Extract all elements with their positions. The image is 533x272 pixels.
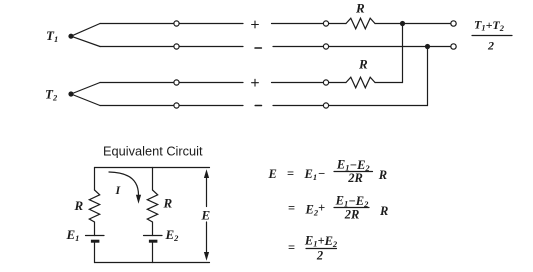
svg-text:Equivalent Circuit: Equivalent Circuit [103, 144, 203, 159]
svg-text:E2: E2 [165, 227, 180, 243]
wire row1 segment b [179, 23, 243, 25]
svg-text:=: = [288, 241, 295, 255]
current arrowhead [136, 195, 141, 204]
resistor R lower (zigzag) [346, 77, 375, 88]
svg-text:R: R [74, 198, 84, 213]
svg-text:T1: T1 [46, 28, 58, 44]
wire eq-circuit bottom [95, 262, 210, 264]
wire row2 segment d [329, 46, 451, 48]
wire row2 segment b [179, 46, 243, 48]
wire T1 upper lead [71, 24, 100, 37]
wire row3 segment a [100, 82, 174, 84]
wire row1 segment d [329, 23, 346, 25]
polarity - row2 [255, 47, 261, 49]
terminal circle row2 mid [323, 44, 328, 49]
terminal circle row2 left [174, 44, 179, 49]
output label fraction (T1+T2)/2 [472, 17, 512, 52]
wire T2 upper lead [71, 83, 100, 95]
wire row1 segment a [100, 23, 174, 25]
resistor R middle branch (zigzag) [147, 190, 157, 222]
svg-text:R: R [379, 204, 388, 218]
svg-text:R: R [378, 168, 387, 182]
svg-text:=: = [287, 167, 294, 181]
svg-text:E1: E1 [304, 167, 318, 182]
resistor R left branch (zigzag) [89, 190, 99, 222]
voltage arrow E upper segment [206, 176, 208, 207]
svg-text:T1+T2: T1+T2 [474, 17, 505, 33]
junction dot node B [425, 44, 430, 49]
node T1 junction dot [68, 34, 73, 39]
battery E2 positive plate [144, 235, 163, 237]
wire left branch lower [94, 243, 96, 263]
wire middle branch mid [152, 222, 154, 236]
wire left branch upper [94, 168, 96, 191]
wire row4 segment c [273, 105, 323, 107]
wire T2 lower lead [71, 94, 100, 106]
voltage arrowhead up [204, 169, 209, 178]
svg-text:2: 2 [487, 39, 494, 53]
wire row4 segment d [329, 105, 428, 107]
svg-text:I: I [115, 183, 122, 197]
svg-text:R: R [355, 1, 365, 16]
terminal circle row3 left [174, 80, 179, 85]
terminal circle row1 left [174, 21, 179, 26]
svg-text:R: R [358, 57, 368, 72]
wire T1 lower lead [71, 36, 100, 46]
terminal circle row1 mid [323, 21, 328, 26]
polarity + row1 [252, 21, 259, 28]
battery E2 negative plate [149, 240, 158, 243]
svg-text:E: E [201, 208, 211, 223]
wire row4 segment b [179, 105, 243, 107]
svg-text:+: + [318, 201, 325, 215]
wire row1 segment c [272, 23, 324, 25]
terminal circle row4 left [174, 103, 179, 108]
svg-text:2R: 2R [347, 171, 363, 185]
wire row3 segment e [375, 82, 403, 84]
svg-text:E2: E2 [305, 203, 319, 218]
svg-text:2R: 2R [344, 208, 360, 222]
equation line 1 [268, 158, 388, 185]
svg-text:−: − [318, 167, 326, 181]
polarity - row4 [255, 105, 261, 107]
wire row4 segment a [100, 105, 174, 107]
current arrow I (arc) [109, 172, 139, 195]
output terminal row1 [451, 21, 456, 26]
resistor R top (zigzag) [346, 18, 375, 29]
output terminal row2 [451, 44, 456, 49]
svg-text:=: = [288, 201, 295, 215]
polarity + row3 [252, 79, 259, 86]
battery E1 positive plate [86, 235, 105, 237]
wire eq-circuit top [95, 167, 210, 169]
svg-text:E1: E1 [66, 227, 80, 243]
wire vertical row3 to node A [402, 24, 404, 83]
battery E1 negative plate [91, 240, 100, 243]
equation line 2 [288, 194, 388, 222]
terminal circle row3 mid [323, 80, 328, 85]
voltage arrow E lower segment [206, 222, 208, 252]
wire row2 segment a [100, 46, 174, 48]
wire row2 segment c [273, 46, 323, 48]
svg-text:R: R [163, 196, 173, 211]
svg-text:T2: T2 [45, 87, 58, 103]
svg-text:E: E [268, 167, 277, 181]
wire vertical row4 to node B [427, 47, 429, 106]
wire row3 segment d [329, 82, 346, 84]
wire row3 segment c [272, 82, 324, 84]
equation line 3 [288, 234, 338, 263]
junction dot node A [400, 21, 405, 26]
wire middle branch upper [152, 168, 154, 191]
wire row1 segment e [375, 23, 451, 25]
svg-text:2: 2 [316, 249, 323, 263]
wire left branch middle [94, 222, 96, 236]
terminal circle row4 mid [323, 103, 328, 108]
wire row3 segment b [179, 82, 243, 84]
svg-text:E1+E2: E1+E2 [304, 234, 338, 250]
wire middle branch lower [152, 243, 154, 263]
voltage arrowhead down [204, 252, 209, 261]
node T2 junction dot [68, 91, 73, 96]
